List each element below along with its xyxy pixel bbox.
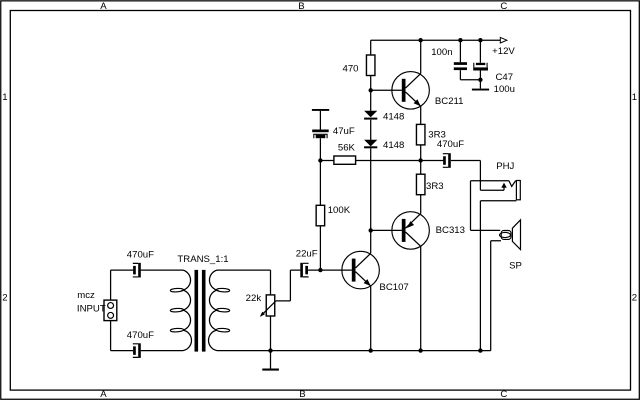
svg-text:22k: 22k [246, 293, 262, 304]
svg-text:PHJ: PHJ [496, 161, 514, 172]
svg-text:A: A [100, 389, 107, 400]
svg-text:C47: C47 [495, 72, 513, 83]
svg-text:4148: 4148 [383, 140, 404, 151]
svg-text:100u: 100u [494, 84, 515, 95]
svg-text:BC211: BC211 [435, 96, 464, 107]
svg-text:1: 1 [632, 92, 637, 103]
svg-text:C: C [500, 389, 507, 400]
svg-text:SP: SP [509, 261, 522, 272]
svg-text:mcz: mcz [77, 290, 95, 301]
svg-text:470uF: 470uF [127, 330, 154, 341]
svg-text:470: 470 [342, 63, 358, 74]
svg-text:2: 2 [632, 292, 637, 303]
svg-text:47uF: 47uF [333, 126, 355, 137]
svg-text:BC107: BC107 [379, 282, 408, 293]
svg-text:22uF: 22uF [296, 249, 318, 260]
svg-text:B: B [299, 389, 305, 400]
svg-text:470uF: 470uF [127, 249, 154, 260]
svg-text:+12V: +12V [492, 46, 515, 57]
svg-text:100n: 100n [431, 47, 452, 58]
svg-text:C: C [500, 1, 507, 12]
svg-text:56K: 56K [338, 143, 356, 154]
svg-text:INPUT: INPUT [77, 303, 106, 314]
svg-text:A: A [100, 1, 107, 12]
svg-text:TRANS_1:1: TRANS_1:1 [177, 254, 228, 265]
svg-text:1: 1 [2, 92, 7, 103]
svg-text:2: 2 [2, 292, 7, 303]
svg-text:3R3: 3R3 [426, 181, 444, 192]
svg-text:BC313: BC313 [436, 225, 465, 236]
svg-text:4148: 4148 [383, 112, 404, 123]
svg-text:470uF: 470uF [437, 139, 464, 150]
svg-text:B: B [298, 1, 304, 12]
svg-text:100K: 100K [328, 205, 351, 216]
